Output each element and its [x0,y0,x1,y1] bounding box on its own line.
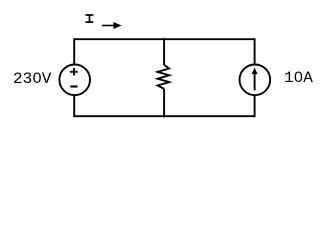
current direction arrow shaft [102,25,114,27]
wire top rail [74,38,254,40]
voltage source minus sign [70,85,77,87]
label I current (drawn serif I) [86,15,94,22]
resistor R [158,65,170,89]
current source arrowhead [252,68,258,74]
voltage source plus sign [70,68,78,76]
svg-text:10A: 10A [284,69,313,87]
mask zero dot of 10A [297,74,300,78]
wire middle branch upper [163,38,165,65]
wire left rail lower [73,95,75,117]
wire right rail upper [254,38,256,64]
mask zero dot of 230V [36,76,39,80]
junction nub above top wire at middle branch [164,37,165,38]
svg-text:230V: 230V [13,70,52,88]
current source I1 circle [240,65,271,96]
wire left rail upper [73,38,75,64]
current source arrow shaft [254,73,256,91]
current direction arrowhead [113,22,121,29]
wire bottom rail [74,115,254,117]
junction nub below bottom wire at middle branch [164,116,165,119]
wire right rail lower [254,95,256,117]
wire middle branch lower [163,89,165,117]
voltage source V1 circle [59,65,90,96]
